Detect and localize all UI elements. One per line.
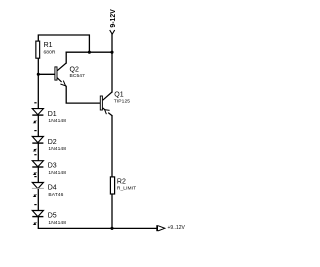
pin 2 mark D4 — [34, 195, 36, 197]
svg-text:R_LIMIT: R_LIMIT — [117, 185, 136, 191]
wire supply stem — [111, 34, 113, 52]
transistor Q1 — [100, 92, 112, 116]
diode D3 — [32, 161, 43, 167]
wire R2 bottom to bus junction — [111, 195, 113, 229]
pin 1 mark D1 — [34, 102, 36, 103]
wire Q2 emitter stub to Q1 base — [66, 86, 100, 103]
wire D4 cathode to D5 anode — [37, 188, 39, 211]
diode D2 — [32, 137, 43, 144]
svg-text:680R: 680R — [44, 50, 56, 56]
resistor R2 — [110, 177, 114, 194]
svg-text:D1: D1 — [48, 111, 57, 118]
svg-text:1N4148: 1N4148 — [48, 118, 66, 124]
svg-text:+9..12V: +9..12V — [168, 225, 186, 231]
wire collector supply rail y=52 — [66, 51, 112, 53]
wire supply rail down to Q1 collector — [111, 52, 113, 92]
pin 1 mark D2 — [34, 130, 36, 131]
pin 2 mark D3 — [34, 173, 36, 175]
pin 1 mark D5 — [34, 204, 36, 205]
wire Q2 base — [38, 73, 54, 75]
diode D5 — [32, 211, 43, 217]
node junction dot supply rail x=112 — [110, 51, 113, 54]
node junction dot at R1 top drop x=89 — [88, 51, 91, 54]
svg-text:1N4148: 1N4148 — [48, 220, 66, 226]
svg-text:D4: D4 — [48, 185, 57, 192]
svg-text:R2: R2 — [117, 179, 126, 186]
svg-text:D2: D2 — [48, 139, 57, 146]
svg-text:1N4148: 1N4148 — [48, 170, 66, 176]
svg-text:D3: D3 — [48, 163, 57, 170]
svg-text:BC547: BC547 — [70, 73, 86, 79]
wire Q1 emitter down to R2 top — [111, 116, 113, 177]
pin 1 mark D4 — [34, 176, 36, 177]
wire D1 cathode to D2 anode — [37, 115, 39, 137]
diode D1 — [32, 109, 43, 116]
wire D5 cathode down and bottom bus to output — [38, 217, 156, 229]
pin 2 mark D2 — [34, 149, 36, 151]
wire Q2 collector stub — [65, 52, 67, 63]
supply terminal arrow 9-12V — [110, 30, 115, 34]
wire from R1 top, left-top corner run to drop at x=89 — [38, 35, 89, 52]
wire D3 cathode to D4 anode — [37, 167, 39, 183]
svg-text:BAT46: BAT46 — [48, 192, 63, 198]
svg-text:Q1: Q1 — [114, 91, 123, 98]
svg-text:TIP125: TIP125 — [114, 98, 130, 104]
resistor R1 — [36, 41, 40, 58]
transistor Q2 — [55, 63, 66, 86]
svg-text:1N4148: 1N4148 — [48, 146, 66, 152]
svg-text:9-12V: 9-12V — [110, 9, 117, 28]
pin 2 mark D5 — [34, 223, 36, 225]
output port arrow — [156, 225, 165, 231]
wire R1 bottom to base junction down to D1 anode — [37, 58, 39, 109]
node junction dot Q2 base / diode chain — [37, 73, 40, 76]
diode D4 (schottky, grey cathode bar) — [32, 183, 44, 189]
svg-text:Q2: Q2 — [70, 66, 79, 73]
svg-text:R1: R1 — [44, 42, 53, 49]
svg-text:D5: D5 — [48, 213, 57, 220]
node junction dot bottom bus / R2 — [110, 227, 113, 230]
pin 2 mark D1 — [34, 121, 36, 123]
wire D2 cathode to D3 anode — [37, 143, 39, 161]
pin 1 mark D3 — [34, 154, 36, 155]
